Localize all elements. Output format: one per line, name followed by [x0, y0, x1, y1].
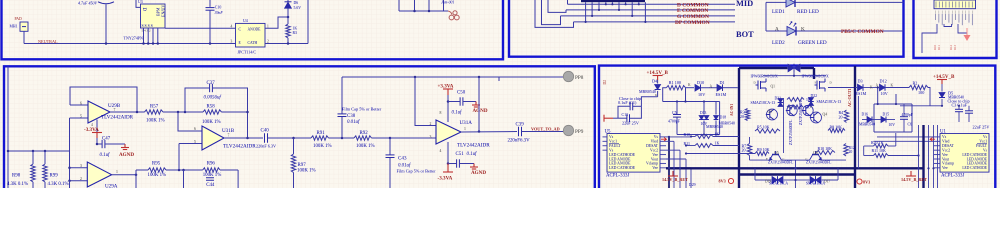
wire Q3 collector rail — [783, 98, 785, 153]
wire bundle left of U1 — [918, 125, 920, 188]
wire U31A output — [461, 131, 517, 134]
svg-text:LED ANODE: LED ANODE — [967, 157, 988, 161]
zener D13 10V — [703, 102, 705, 115]
svg-text:PB5/C COMMON: PB5/C COMMON — [841, 29, 884, 35]
wire to U31A pin3 — [390, 137, 436, 139]
svg-text:R99: R99 — [50, 174, 59, 179]
wire U29A output — [112, 174, 136, 176]
svg-text:22uF 25V: 22uF 25V — [622, 121, 639, 126]
wire U4 pin1 to D6/R3 node — [265, 17, 288, 28]
wire driver row a — [877, 136, 934, 138]
svg-text:5.6V: 5.6V — [294, 6, 302, 10]
svg-text:0.1uF (C1): 0.1uF (C1) — [618, 100, 637, 105]
diode D4 MBR0540 — [657, 80, 659, 84]
resistor R7 20 — [749, 137, 751, 144]
svg-text:LED ANODE: LED ANODE — [609, 157, 631, 161]
svg-text:R10 10K: R10 10K — [818, 146, 833, 151]
svg-text:2: 2 — [80, 177, 82, 181]
svg-text:Vs: Vs — [609, 135, 614, 139]
svg-text:1K: 1K — [806, 98, 811, 102]
diode D18 MBR0540 — [715, 102, 717, 115]
wire U29B output row — [110, 111, 145, 113]
svg-text:20: 20 — [742, 148, 746, 153]
wire D COMMON row — [568, 3, 736, 5]
svg-text:SMAZ18CA: SMAZ18CA — [769, 182, 788, 186]
svg-text:Q1: Q1 — [771, 85, 776, 89]
svg-text:20: 20 — [740, 114, 744, 119]
svg-text:100: 100 — [918, 90, 924, 95]
diode D16 MBR0540 — [867, 117, 872, 123]
svg-text:U5: U5 — [605, 130, 612, 135]
wire gate rail across — [763, 75, 826, 77]
wire from C9 to neutral — [105, 4, 107, 43]
svg-text:1K: 1K — [293, 27, 298, 31]
capacitor C37 0.0056uF feedback — [185, 88, 209, 112]
svg-text:DP COMMON: DP COMMON — [675, 20, 710, 26]
svg-text:R11: R11 — [937, 45, 941, 50]
svg-text:Vout: Vout — [651, 157, 659, 161]
wire right column — [307, 0, 309, 44]
svg-text:D12: D12 — [880, 79, 887, 84]
svg-text:Vee: Vee — [652, 153, 658, 157]
svg-text:D6: D6 — [294, 1, 299, 5]
wire E COMMON row — [566, 9, 735, 11]
left vertical bus wire — [7, 66, 9, 188]
sheet border bottom-left — [4, 66, 595, 188]
capacitor C38 0.01uF film — [341, 77, 343, 114]
resistor R12 20 — [844, 144, 848, 157]
svg-text:D3: D3 — [858, 79, 863, 84]
svg-text:R3: R3 — [293, 31, 298, 35]
IC U3 TNY274PN — [141, 4, 166, 28]
svg-text:FAULT: FAULT — [976, 144, 988, 148]
svg-text:U3: U3 — [138, 0, 143, 4]
svg-text:D16: D16 — [862, 113, 869, 117]
diode D15 10V — [881, 117, 886, 123]
wire D4 to decoupling caps — [641, 97, 657, 107]
svg-text:LED CATHODE: LED CATHODE — [962, 166, 987, 170]
wire MID row — [766, 1, 904, 3]
svg-text:C44: C44 — [206, 183, 215, 188]
svg-text:IPW60R041C6/X: IPW60R041C6/X — [802, 75, 829, 79]
resistor R96 100K 1% — [203, 168, 220, 172]
power -3.3VA (U31A) — [447, 164, 449, 173]
wire R57-R58 node — [163, 111, 203, 113]
svg-text:1K: 1K — [715, 140, 720, 145]
svg-text:VOUT_TO_AD: VOUT_TO_AD — [531, 126, 560, 131]
svg-text:220nF6.3V: 220nF6.3V — [508, 139, 531, 144]
tvs bowtie (top) — [788, 64, 794, 72]
svg-text:3: 3 — [231, 40, 233, 44]
mosfet Q1 — [757, 81, 759, 90]
thick bus top rail — [739, 67, 788, 69]
svg-text:Vout: Vout — [942, 157, 950, 161]
resistor R92 100K 1% — [354, 136, 372, 140]
svg-text:7: 7 — [228, 133, 230, 137]
svg-text:Jum-001: Jum-001 — [441, 0, 454, 4]
svg-text:ZXTP25040DFL: ZXTP25040DFL — [806, 161, 832, 165]
wire ref vertical to U29A pin3 — [69, 151, 71, 181]
wire U29B pin6 — [70, 104, 88, 106]
wire mcu L path — [922, 24, 937, 53]
svg-text:AGND: AGND — [119, 152, 134, 158]
U1 left pin stubs — [934, 136, 940, 138]
svg-text:39nF: 39nF — [215, 11, 224, 15]
svg-text:U29A: U29A — [105, 184, 118, 188]
thick rail mid — [739, 173, 855, 175]
svg-text:4: 4 — [91, 123, 93, 127]
svg-text:4: 4 — [440, 149, 442, 153]
svg-text:C13: C13 — [622, 113, 629, 117]
svg-text:AGND: AGND — [471, 170, 486, 176]
svg-text:ZXTP25040DFL: ZXTP25040DFL — [799, 99, 803, 125]
capacitor C3 — [958, 106, 960, 109]
svg-text:Vcc2: Vcc2 — [650, 148, 658, 152]
svg-text:5: 5 — [194, 140, 196, 144]
svg-text:Vs: Vs — [654, 135, 659, 139]
wire U3 to U4 anode — [165, 27, 236, 29]
wire stub rows to chassis ground — [399, 10, 448, 12]
svg-text:3: 3 — [430, 135, 432, 139]
svg-text:Vs: Vs — [942, 135, 947, 139]
wire feedback rail — [342, 76, 563, 78]
svg-text:LED1: LED1 — [772, 9, 785, 15]
svg-text:FAULT: FAULT — [609, 144, 621, 148]
op-amp U29B TLV2442AIDR — [88, 101, 110, 123]
wire ref to op-amp inputs — [69, 118, 71, 151]
svg-text:AC-OUT1: AC-OUT1 — [847, 88, 852, 107]
svg-text:C47: C47 — [102, 137, 111, 142]
svg-text:R58: R58 — [207, 105, 216, 110]
wire Q6 emitter row — [796, 159, 810, 161]
IC U? (cut off) body — [934, 0, 976, 9]
svg-text:D4: D4 — [652, 79, 658, 84]
svg-text:K: K — [801, 27, 805, 33]
capacitor C43 0.01uF film — [389, 138, 391, 155]
svg-text:SMAZ18CA-13: SMAZ18CA-13 — [817, 100, 842, 104]
wire desat rail right — [874, 103, 912, 105]
red arrow (U5 desat) — [661, 138, 667, 142]
pad MH1 — [20, 22, 28, 31]
svg-text:Vled: Vled — [651, 140, 658, 144]
svg-text:C38: C38 — [347, 114, 356, 119]
svg-text:MBR0540: MBR0540 — [639, 89, 656, 94]
svg-text:Vclamp: Vclamp — [942, 162, 954, 166]
svg-text:Q5: Q5 — [774, 151, 779, 155]
svg-text:TLV2442AIDR: TLV2442AIDR — [101, 115, 134, 121]
resistor R95 100K 1% — [148, 168, 166, 172]
svg-text:-3.3VA: -3.3VA — [438, 176, 453, 182]
display pin drop wires — [585, 2, 587, 22]
U5 left pin stubs — [603, 136, 608, 138]
power stub (red, left) — [604, 117, 613, 119]
svg-text:D1: D1 — [720, 80, 725, 85]
svg-text:TLV2442AIDR: TLV2442AIDR — [223, 144, 256, 150]
wire rail to U31A pin2 — [415, 77, 436, 126]
svg-text:D29: D29 — [689, 183, 696, 187]
zener D12 10V — [880, 84, 886, 91]
svg-text:A: A — [775, 27, 779, 33]
svg-text:RED LED: RED LED — [797, 9, 819, 15]
capacitor C47 0.1uF — [97, 143, 102, 145]
wire reference rail — [8, 150, 70, 152]
IC U1 ACPL-333J — [940, 134, 989, 173]
resistor R91 100K 1% — [311, 136, 329, 140]
svg-text:100K 1%: 100K 1% — [203, 173, 222, 178]
svg-text:AGND: AGND — [473, 108, 488, 114]
svg-text:D10: D10 — [697, 80, 704, 85]
wire node to U31B pin6 — [178, 112, 202, 131]
transistor Q5 — [770, 151, 782, 160]
svg-text:ACPL-333J: ACPL-333J — [606, 174, 629, 179]
resistor R1 100 — [663, 88, 667, 102]
transistor Q3b — [787, 105, 797, 115]
capacitor C40 220nF 6.3V — [264, 133, 266, 143]
power 14.5V_B_RET (left) — [672, 171, 674, 176]
transistor Q4 — [811, 112, 822, 123]
wire rail stub — [498, 77, 500, 81]
bus loop to DP common — [535, 0, 574, 27]
wire bundle to R10 row — [669, 136, 691, 138]
svg-text:Vs: Vs — [609, 148, 614, 152]
svg-text:14.5V_B_RET: 14.5V_B_RET — [901, 177, 927, 182]
wire mcu U path — [944, 24, 952, 27]
svg-text:Vcc1: Vcc1 — [979, 140, 987, 144]
wire R95 node to U31B pin5 — [178, 144, 180, 171]
svg-text:R97: R97 — [298, 163, 307, 168]
svg-text:5 4 3 2: 5 4 3 2 — [142, 29, 151, 33]
svg-text:R92: R92 — [360, 131, 369, 136]
capacitor C4 22uF 25V — [968, 106, 970, 111]
svg-text:K: K — [688, 83, 691, 87]
analog ground AGND (C50) — [475, 102, 477, 106]
svg-text:D18: D18 — [720, 116, 727, 120]
svg-text:100K 1%: 100K 1% — [202, 120, 221, 125]
capacitor C39 220nF 6.3V — [518, 127, 520, 137]
svg-text:100K 1%: 100K 1% — [356, 144, 375, 149]
svg-text:100K 1%: 100K 1% — [297, 169, 316, 174]
svg-text:Vcc2: Vcc2 — [942, 148, 950, 152]
svg-text:7: 7 — [114, 108, 116, 112]
svg-text:20: 20 — [849, 150, 853, 154]
svg-text:MID: MID — [736, 0, 753, 8]
capacitor C6 4700pF — [903, 104, 905, 117]
svg-text:100K 1%: 100K 1% — [148, 173, 167, 178]
svg-text:NEUTRAL: NEUTRAL — [38, 39, 58, 44]
led LED1 (red) — [786, 0, 795, 7]
svg-text:Vee: Vee — [942, 166, 948, 170]
test point PP8 — [563, 71, 573, 81]
svg-text:K: K — [891, 84, 894, 88]
svg-text:22uF 25V: 22uF 25V — [973, 124, 990, 129]
svg-text:D13: D13 — [700, 111, 707, 115]
capacitor C9 4.7uF 450V (cut off) — [98, 2, 114, 4]
wire U29B pin5 — [70, 117, 89, 119]
svg-text:4700pF: 4700pF — [668, 120, 681, 124]
svg-text:1K: 1K — [715, 131, 720, 136]
power +3.3VA (U31A) — [443, 88, 453, 90]
power arrow (pink) — [966, 28, 968, 35]
sheet border top-right — [914, 0, 997, 58]
op-amp U31B TLV2442AIDR — [202, 126, 224, 150]
bus loop to E common — [548, 0, 566, 12]
power -3.3VA (U29B) — [96, 120, 98, 145]
svg-text:3: 3 — [80, 164, 82, 168]
svg-text:6: 6 — [80, 102, 82, 106]
svg-text:6: 6 — [194, 127, 196, 131]
svg-text:R1 100: R1 100 — [669, 80, 681, 85]
op-amp U29A TLV2442AIDR — [87, 162, 111, 187]
svg-text:U1: U1 — [940, 130, 947, 135]
svg-text:R96: R96 — [207, 162, 216, 167]
thick bus vertical (right phase) — [854, 66, 856, 188]
wire U31B output — [224, 137, 263, 139]
analog ground AGND (C47) — [124, 144, 126, 148]
op-amp U31A TLV2442AIDR — [436, 120, 461, 144]
svg-text:LED ANODE: LED ANODE — [967, 162, 988, 166]
svg-text:MBR0540: MBR0540 — [859, 123, 875, 127]
svg-text:8: 8 — [440, 111, 442, 115]
svg-text:100K 1%: 100K 1% — [313, 144, 332, 149]
test point PP9 — [563, 125, 573, 135]
wires U3 source pins to neutral — [143, 28, 145, 44]
junction dots on common rows — [585, 21, 587, 23]
driver wire bundle right of U5 — [668, 137, 670, 188]
wire mcu path 2 — [958, 24, 967, 33]
wire Q2 drain to bus — [828, 87, 855, 89]
svg-text:A: A — [876, 84, 879, 88]
svg-text:S S S S: S S S S — [142, 24, 153, 28]
wire R20 to bundle — [888, 145, 896, 147]
capacitor C50 0.1uF — [448, 101, 460, 103]
svg-text:BOT: BOT — [736, 30, 754, 39]
diode D19 bowtie — [754, 168, 756, 180]
junction dots driver bundles — [668, 167, 670, 169]
wire desat rail — [663, 101, 720, 103]
led LED2 (green) — [787, 27, 796, 36]
svg-text:Vee: Vee — [942, 153, 948, 157]
svg-text:ZXTP25040DFL: ZXTP25040DFL — [768, 161, 794, 165]
opto U4 JPCT114/C — [236, 23, 266, 47]
resistor 1K b — [787, 105, 803, 109]
svg-text:1: 1 — [116, 170, 118, 174]
resistor R3 20 (vert) — [745, 109, 749, 121]
junction dots on neutral — [105, 42, 108, 45]
svg-text:2: 2 — [430, 122, 432, 126]
svg-text:Film Cap 5% or Better: Film Cap 5% or Better — [397, 169, 437, 174]
svg-text:C40: C40 — [261, 129, 270, 134]
wire U29A pin2 — [70, 180, 88, 182]
svg-text:0.01uf: 0.01uf — [347, 120, 360, 125]
svg-text:PAD: PAD — [15, 17, 23, 21]
tiny red labels — [933, 44, 957, 50]
svg-text:ES1M: ES1M — [716, 92, 727, 97]
svg-text:-3.3VA: -3.3VA — [84, 127, 99, 133]
wire output feedback drop — [478, 77, 480, 132]
svg-text:Q3: Q3 — [768, 110, 773, 114]
svg-text:SMAZ18CA-13: SMAZ18CA-13 — [751, 101, 776, 105]
svg-text:Q4: Q4 — [823, 113, 828, 117]
svg-text:JPCT114/C: JPCT114/C — [238, 50, 257, 55]
port 8V3 (right) — [857, 179, 862, 184]
svg-text:Vled: Vled — [942, 140, 949, 144]
svg-text:Vclamp: Vclamp — [646, 162, 658, 166]
svg-text:C10: C10 — [215, 6, 222, 10]
svg-text:EN/UV: EN/UV — [161, 5, 166, 17]
wire desat bottom rail — [677, 134, 720, 136]
wire BOT row — [766, 30, 904, 32]
resistor R58 100K 1% — [203, 110, 222, 114]
svg-text:D2: D2 — [603, 80, 607, 85]
svg-text:Q6: Q6 — [813, 151, 818, 155]
svg-text:LED CATHODE: LED CATHODE — [962, 153, 987, 157]
svg-text:C43: C43 — [398, 156, 407, 162]
wire U29B feedback loop — [70, 87, 137, 112]
zener D17 bowtie — [796, 179, 810, 181]
thick bus top rail right — [801, 67, 815, 69]
svg-text:ES1M: ES1M — [856, 91, 867, 96]
capacitor C10 39nF — [209, 0, 211, 7]
svg-text:LED2: LED2 — [772, 40, 785, 46]
svg-text:8V3: 8V3 — [719, 178, 726, 183]
svg-text:C51: C51 — [456, 152, 465, 157]
svg-text:4: 4 — [231, 25, 233, 29]
zener D6 5.6V — [287, 0, 289, 2]
thick bus vertical (left phase) — [738, 68, 740, 188]
IC pin wires — [936, 14, 973, 25]
svg-text:10V: 10V — [698, 92, 705, 97]
svg-text:220nF 6.3V: 220nF 6.3V — [256, 144, 276, 149]
wire U29A pin3 — [70, 167, 88, 169]
svg-text:C6: C6 — [908, 123, 913, 127]
capacitor C44 — [206, 177, 214, 179]
wire C44 drop — [183, 170, 185, 188]
resistor R97 100K 1% (to gnd) — [293, 138, 295, 154]
svg-text:A: A — [710, 85, 713, 89]
svg-text:D15: D15 — [883, 113, 890, 117]
resistor R4 20 — [844, 110, 848, 123]
diode D5 MBR0540 — [941, 84, 943, 92]
svg-text:ZXTP25040DFL: ZXTP25040DFL — [789, 119, 793, 145]
transistor Q6 — [810, 151, 822, 160]
capacitor C51 0.1uF — [448, 163, 456, 165]
capacitor C13 22uF 25V — [618, 117, 627, 119]
wire MH1 to neutral — [23, 31, 25, 43]
svg-text:1: 1 — [464, 127, 466, 131]
wire diode row right — [855, 87, 857, 89]
svg-text:DESAT: DESAT — [646, 144, 658, 148]
svg-text:Vcc1: Vcc1 — [609, 140, 617, 144]
svg-text:4.3K 0.1%: 4.3K 0.1% — [7, 182, 28, 187]
bus loop to G common — [542, 0, 561, 25]
svg-text:1K: 1K — [805, 106, 810, 110]
svg-text:8V3: 8V3 — [863, 179, 870, 184]
svg-text:U4: U4 — [243, 19, 248, 23]
svg-text:100K 1%: 100K 1% — [146, 119, 165, 124]
svg-text:0.0056uf: 0.0056uf — [204, 96, 222, 101]
svg-text:C39: C39 — [516, 123, 525, 128]
power 14.5V_B_RET (right) — [910, 171, 912, 176]
junction dots ref rail — [32, 150, 35, 153]
capacitor C17 0.1uF — [633, 105, 642, 107]
wire parallel of bus — [857, 96, 859, 168]
wire Q5 emitter row — [750, 159, 770, 161]
wire U3 drain pin — [136, 0, 141, 7]
svg-text:4.7uF 450V: 4.7uF 450V — [78, 1, 97, 6]
svg-text:R95: R95 — [152, 162, 161, 167]
svg-text:10V: 10V — [881, 91, 888, 96]
svg-text:Vs: Vs — [983, 135, 988, 139]
